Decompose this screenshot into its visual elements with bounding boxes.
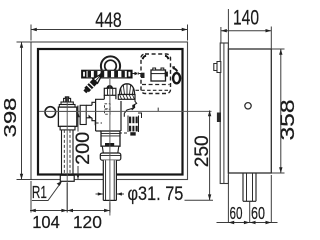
svg-text:120: 120: [73, 212, 102, 232]
dim 250 extension lines: [185, 199, 214, 201]
dim 250 arrows: [208, 110, 211, 200]
dim 60/60 extension lines: [228, 175, 271, 223]
dim 104/120 arrows: [30, 209, 110, 212]
valve top nub: [65, 96, 70, 98]
dim 358 line: [280, 49, 282, 173]
svg-text:448: 448: [95, 9, 122, 32]
elbow body: [92, 95, 121, 131]
outlet pipe dark wedge: [89, 115, 93, 119]
dim 448 arrows: [31, 28, 188, 31]
dim 140 line: [221, 30, 271, 32]
svg-text:R1: R1: [32, 182, 47, 202]
teardrop hook: [173, 73, 180, 83]
side view upper bolt: [214, 62, 221, 73]
dim 398 arrows: [20, 42, 23, 180]
svg-text:φ31. 75: φ31. 75: [128, 184, 184, 205]
side view back plate: [220, 43, 228, 184]
flush pipe walls: [103, 160, 116, 200]
svg-text:140: 140: [233, 7, 259, 30]
dim 104/120 line: [30, 210, 110, 212]
spud taper: [102, 146, 119, 153]
svg-text:358: 358: [278, 100, 299, 141]
side view plate front face line: [223, 43, 225, 184]
dim text 200 (rotated, with halo): [76, 132, 90, 167]
dim 398 extension lines: [17, 42, 33, 180]
unit right side dark mark: [165, 72, 168, 77]
stop valve circle: [45, 107, 56, 118]
vacuum breaker wand (dark diagonal): [83, 71, 105, 94]
outlet pipe lines: [86, 105, 92, 118]
turban dome fitting: [120, 84, 135, 95]
unit left edge dark piece: [141, 73, 145, 78]
dim 448 line: [31, 29, 188, 31]
flush pipe vertical centerline: [109, 79, 111, 216]
dim 140 arrows: [221, 29, 271, 32]
supply pipe flare nut: [60, 175, 74, 181]
valve body seam line: [58, 110, 76, 112]
dim 448 extension lines: [31, 25, 188, 41]
dim 60/60 line: [217, 222, 278, 224]
dim 60/60 center line: [249, 202, 251, 224]
side view button hole circle: [245, 103, 251, 109]
svg-text:200: 200: [73, 132, 94, 165]
dim 140 extension lines: [221, 27, 271, 50]
side view box body: [228, 49, 271, 173]
supply pipe walls: [62, 130, 74, 176]
dim 398 line: [21, 42, 23, 180]
connector between bar and unit: [135, 72, 139, 75]
spud flange: [100, 153, 121, 160]
valve cap step: [61, 102, 73, 105]
svg-text:398: 398: [0, 98, 20, 138]
svg-text:104: 104: [32, 212, 60, 232]
R1 leader line: [32, 183, 61, 201]
side view bottom pipe stub: [243, 173, 256, 201]
side view tall extension line: [227, 9, 229, 49]
pipe clamp bracket: [119, 108, 142, 136]
valve main body: [58, 107, 76, 126]
dim 200 line: [77, 112, 79, 180]
small tick on centerline: [157, 108, 159, 112]
dim 60/60 arrows: [228, 221, 271, 224]
side view lower bolt (dark): [217, 113, 221, 123]
unit button box: [151, 70, 166, 81]
dim 358 arrows: [279, 49, 282, 173]
wall box inner rect (panel opening, thick): [38, 49, 183, 175]
mounting bar with hatched segments: [82, 70, 132, 78]
flush valve unit cover (dashed hidden outline): [141, 54, 171, 94]
elbow hidden lines (dashed): [105, 104, 111, 109]
supply pipe inner thread (dashed): [64, 130, 70, 175]
unit lower dashed seam to turban: [136, 89, 171, 91]
dim 358 extension lines: [271, 49, 284, 173]
dim 104/120 extension lines: [31, 181, 110, 213]
svg-text:60: 60: [230, 203, 243, 223]
spud nut on flush pipe: [101, 131, 120, 146]
svg-text:60: 60: [251, 203, 265, 223]
valve shoulder: [59, 105, 75, 108]
supply pipe vertical centerline: [66, 96, 68, 212]
wall penetration donut ring: [101, 56, 120, 75]
svg-text:250: 250: [192, 135, 213, 167]
dome nut on flush pipe top: [104, 88, 116, 95]
bracket outline right of turban: [132, 99, 137, 110]
stub inner lines: [247, 173, 253, 201]
dim 250 line: [209, 110, 211, 200]
valve cap: [64, 98, 71, 102]
dim phi31.75 arrows: [96, 193, 125, 195]
wall box outer rect (front view): [31, 42, 188, 180]
horizontal centerline of valve train: [39, 110, 212, 112]
unit interior dashed flange line: [142, 84, 170, 86]
unit corner marks: [143, 56, 146, 59]
valve bottom coupling: [60, 126, 75, 129]
union nut right of valve: [78, 106, 80, 125]
dim 200 arrows: [76, 112, 79, 180]
